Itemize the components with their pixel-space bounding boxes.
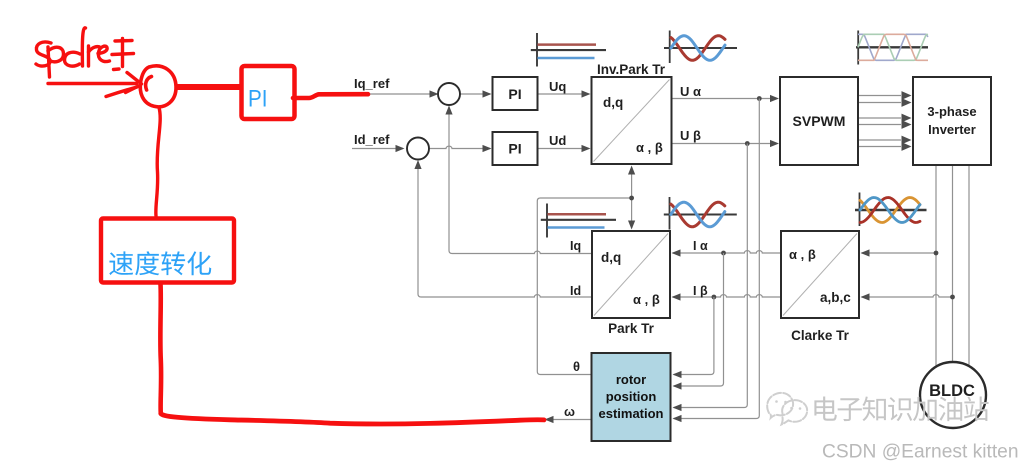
svg-text:a,b,c: a,b,c bbox=[820, 290, 851, 305]
icon DC levels (Uq/Ud reference) top bbox=[531, 33, 606, 67]
red thick wire circle to PI box bbox=[176, 84, 242, 90]
wire I alpha: Clarke to Park bbox=[672, 249, 782, 256]
block SVPWM bbox=[780, 77, 858, 165]
watermark text dian zi zhi shi jia you zhan bbox=[814, 396, 988, 421]
svg-text:PI: PI bbox=[248, 86, 268, 113]
wire Iq feedback: Park to sum1 bbox=[445, 106, 592, 254]
label I alpha bbox=[693, 239, 708, 253]
wire phase A tap to Clarke bbox=[861, 249, 939, 256]
red speed summing circle bbox=[140, 66, 176, 107]
svg-text:I α: I α bbox=[693, 239, 708, 253]
svg-text:CSDN @Earnest kitten: CSDN @Earnest kitten bbox=[822, 442, 1019, 463]
icon two-phase sine (U alpha/beta) top bbox=[664, 31, 737, 64]
svg-text:Ud: Ud bbox=[549, 133, 566, 148]
handwritten red label spdref bbox=[36, 28, 134, 77]
svg-text:rotor: rotor bbox=[616, 372, 646, 387]
motor BLDC bbox=[920, 362, 986, 428]
red wire PI box to Iq_ref bbox=[293, 94, 368, 98]
wire I beta feedback into rotor estimator bbox=[673, 297, 714, 378]
watermark logo (chat bubbles) bbox=[767, 393, 807, 425]
wire inverter phase A down to BLDC bbox=[935, 165, 937, 367]
svg-text:U α: U α bbox=[680, 84, 701, 99]
block Park transform bbox=[592, 231, 670, 336]
block rotor position estimation bbox=[592, 353, 671, 441]
svg-text:Inv.Park Tr: Inv.Park Tr bbox=[597, 62, 666, 77]
junction dot U beta bbox=[745, 141, 750, 146]
icon three-phase PWM waves above inverter bbox=[856, 31, 928, 65]
wire Iq_ref input bbox=[352, 90, 439, 97]
svg-text:α , β: α , β bbox=[789, 247, 816, 262]
wire Id feedback: Park to sum2 bbox=[414, 160, 592, 297]
svg-text:PI: PI bbox=[508, 86, 521, 102]
red input arrow into speed summing circle bbox=[48, 73, 142, 97]
junction dot U alpha bbox=[757, 96, 762, 101]
wire U alpha feedback into rotor estimator bbox=[673, 99, 760, 423]
red speed-conversion box (su du zhuan hua) bbox=[101, 219, 234, 283]
block PI (d axis) bbox=[493, 132, 538, 165]
svg-text:Id: Id bbox=[570, 284, 581, 298]
svg-text:d,q: d,q bbox=[601, 250, 621, 265]
wire I alpha feedback into rotor estimator bbox=[673, 253, 724, 390]
block PI (q axis) bbox=[493, 77, 538, 110]
wire theta net: rotor estimator to Park and Inv.Park bbox=[537, 166, 635, 375]
label omega bbox=[564, 404, 575, 419]
svg-text:3-phase: 3-phase bbox=[927, 104, 976, 119]
icon DC levels (Iq/Id) middle bbox=[541, 204, 616, 238]
red wire circle down to speed conversion box bbox=[156, 108, 160, 217]
wire phase B tap to Clarke (hops over phase A line) bbox=[861, 293, 955, 300]
svg-text:U β: U β bbox=[680, 128, 701, 143]
svg-text:Id_ref: Id_ref bbox=[354, 132, 390, 147]
label Uq bbox=[549, 79, 566, 94]
svg-text:estimation: estimation bbox=[598, 406, 663, 421]
label I beta bbox=[693, 284, 708, 298]
svg-text:d,q: d,q bbox=[603, 95, 623, 110]
svg-text:Clarke Tr: Clarke Tr bbox=[791, 328, 850, 343]
svg-text:position: position bbox=[606, 389, 657, 404]
wire I beta: Clarke to Park bbox=[672, 293, 782, 300]
svg-text:SVPWM: SVPWM bbox=[793, 113, 846, 129]
svg-text:Iq: Iq bbox=[570, 239, 581, 253]
junction dot theta branch bbox=[629, 196, 634, 201]
svg-text:Iq_ref: Iq_ref bbox=[354, 76, 390, 91]
wire omega output of rotor estimator bbox=[545, 416, 592, 423]
label Iq_ref bbox=[354, 76, 390, 91]
wire PI1 to Inv.Park (Uq) bbox=[538, 90, 591, 97]
svg-text:PI: PI bbox=[508, 141, 521, 157]
svg-text:θ: θ bbox=[573, 359, 580, 374]
wire PI2 to Inv.Park (Ud) bbox=[538, 145, 591, 152]
icon three-phase sine above Clarke bbox=[855, 193, 927, 227]
red wire box down and right to omega bbox=[160, 284, 544, 424]
summing junction sum2 bbox=[407, 138, 429, 160]
label U beta bbox=[680, 128, 701, 143]
label Iq bbox=[570, 239, 581, 253]
junction dot I beta bbox=[712, 295, 717, 300]
wire sum2 to PI2 bbox=[430, 145, 492, 152]
icon two-phase sine (I alpha/beta) middle bbox=[664, 197, 737, 230]
label Id bbox=[570, 284, 581, 298]
svg-text:α , β: α , β bbox=[633, 292, 660, 307]
wire U beta feedback into rotor estimator bbox=[673, 144, 748, 412]
block Clarke transform bbox=[781, 231, 859, 343]
label Ud bbox=[549, 133, 566, 148]
svg-text:Inverter: Inverter bbox=[928, 122, 976, 137]
wire Id_ref input bbox=[352, 145, 405, 152]
block Inv.Park transform bbox=[592, 62, 672, 164]
summing junction sum1 bbox=[438, 83, 460, 105]
svg-text:Uq: Uq bbox=[549, 79, 566, 94]
wire U beta: Inv.Park to SVPWM bbox=[672, 140, 780, 147]
wire inverter phase C down to BLDC bbox=[968, 165, 970, 366]
label U alpha bbox=[680, 84, 701, 99]
junction dot I alpha bbox=[721, 251, 726, 256]
block 3-phase inverter bbox=[913, 77, 991, 165]
label theta bbox=[573, 359, 580, 374]
svg-text:I β: I β bbox=[693, 284, 708, 298]
label Id_ref bbox=[354, 132, 390, 147]
red PI controller box bbox=[242, 66, 295, 119]
wire U alpha: Inv.Park to SVPWM bbox=[672, 95, 780, 102]
svg-text:α , β: α , β bbox=[636, 140, 663, 155]
svg-text:Park Tr: Park Tr bbox=[608, 321, 655, 336]
wire sum1 to PI1 bbox=[460, 90, 492, 97]
watermark text CSDN @Earnest kitten bbox=[822, 442, 1019, 463]
wire inverter phase B down to BLDC bbox=[952, 165, 954, 362]
wires SVPWM to 3-phase inverter (PWM signals) bbox=[858, 91, 912, 151]
svg-text:ω: ω bbox=[564, 404, 575, 419]
